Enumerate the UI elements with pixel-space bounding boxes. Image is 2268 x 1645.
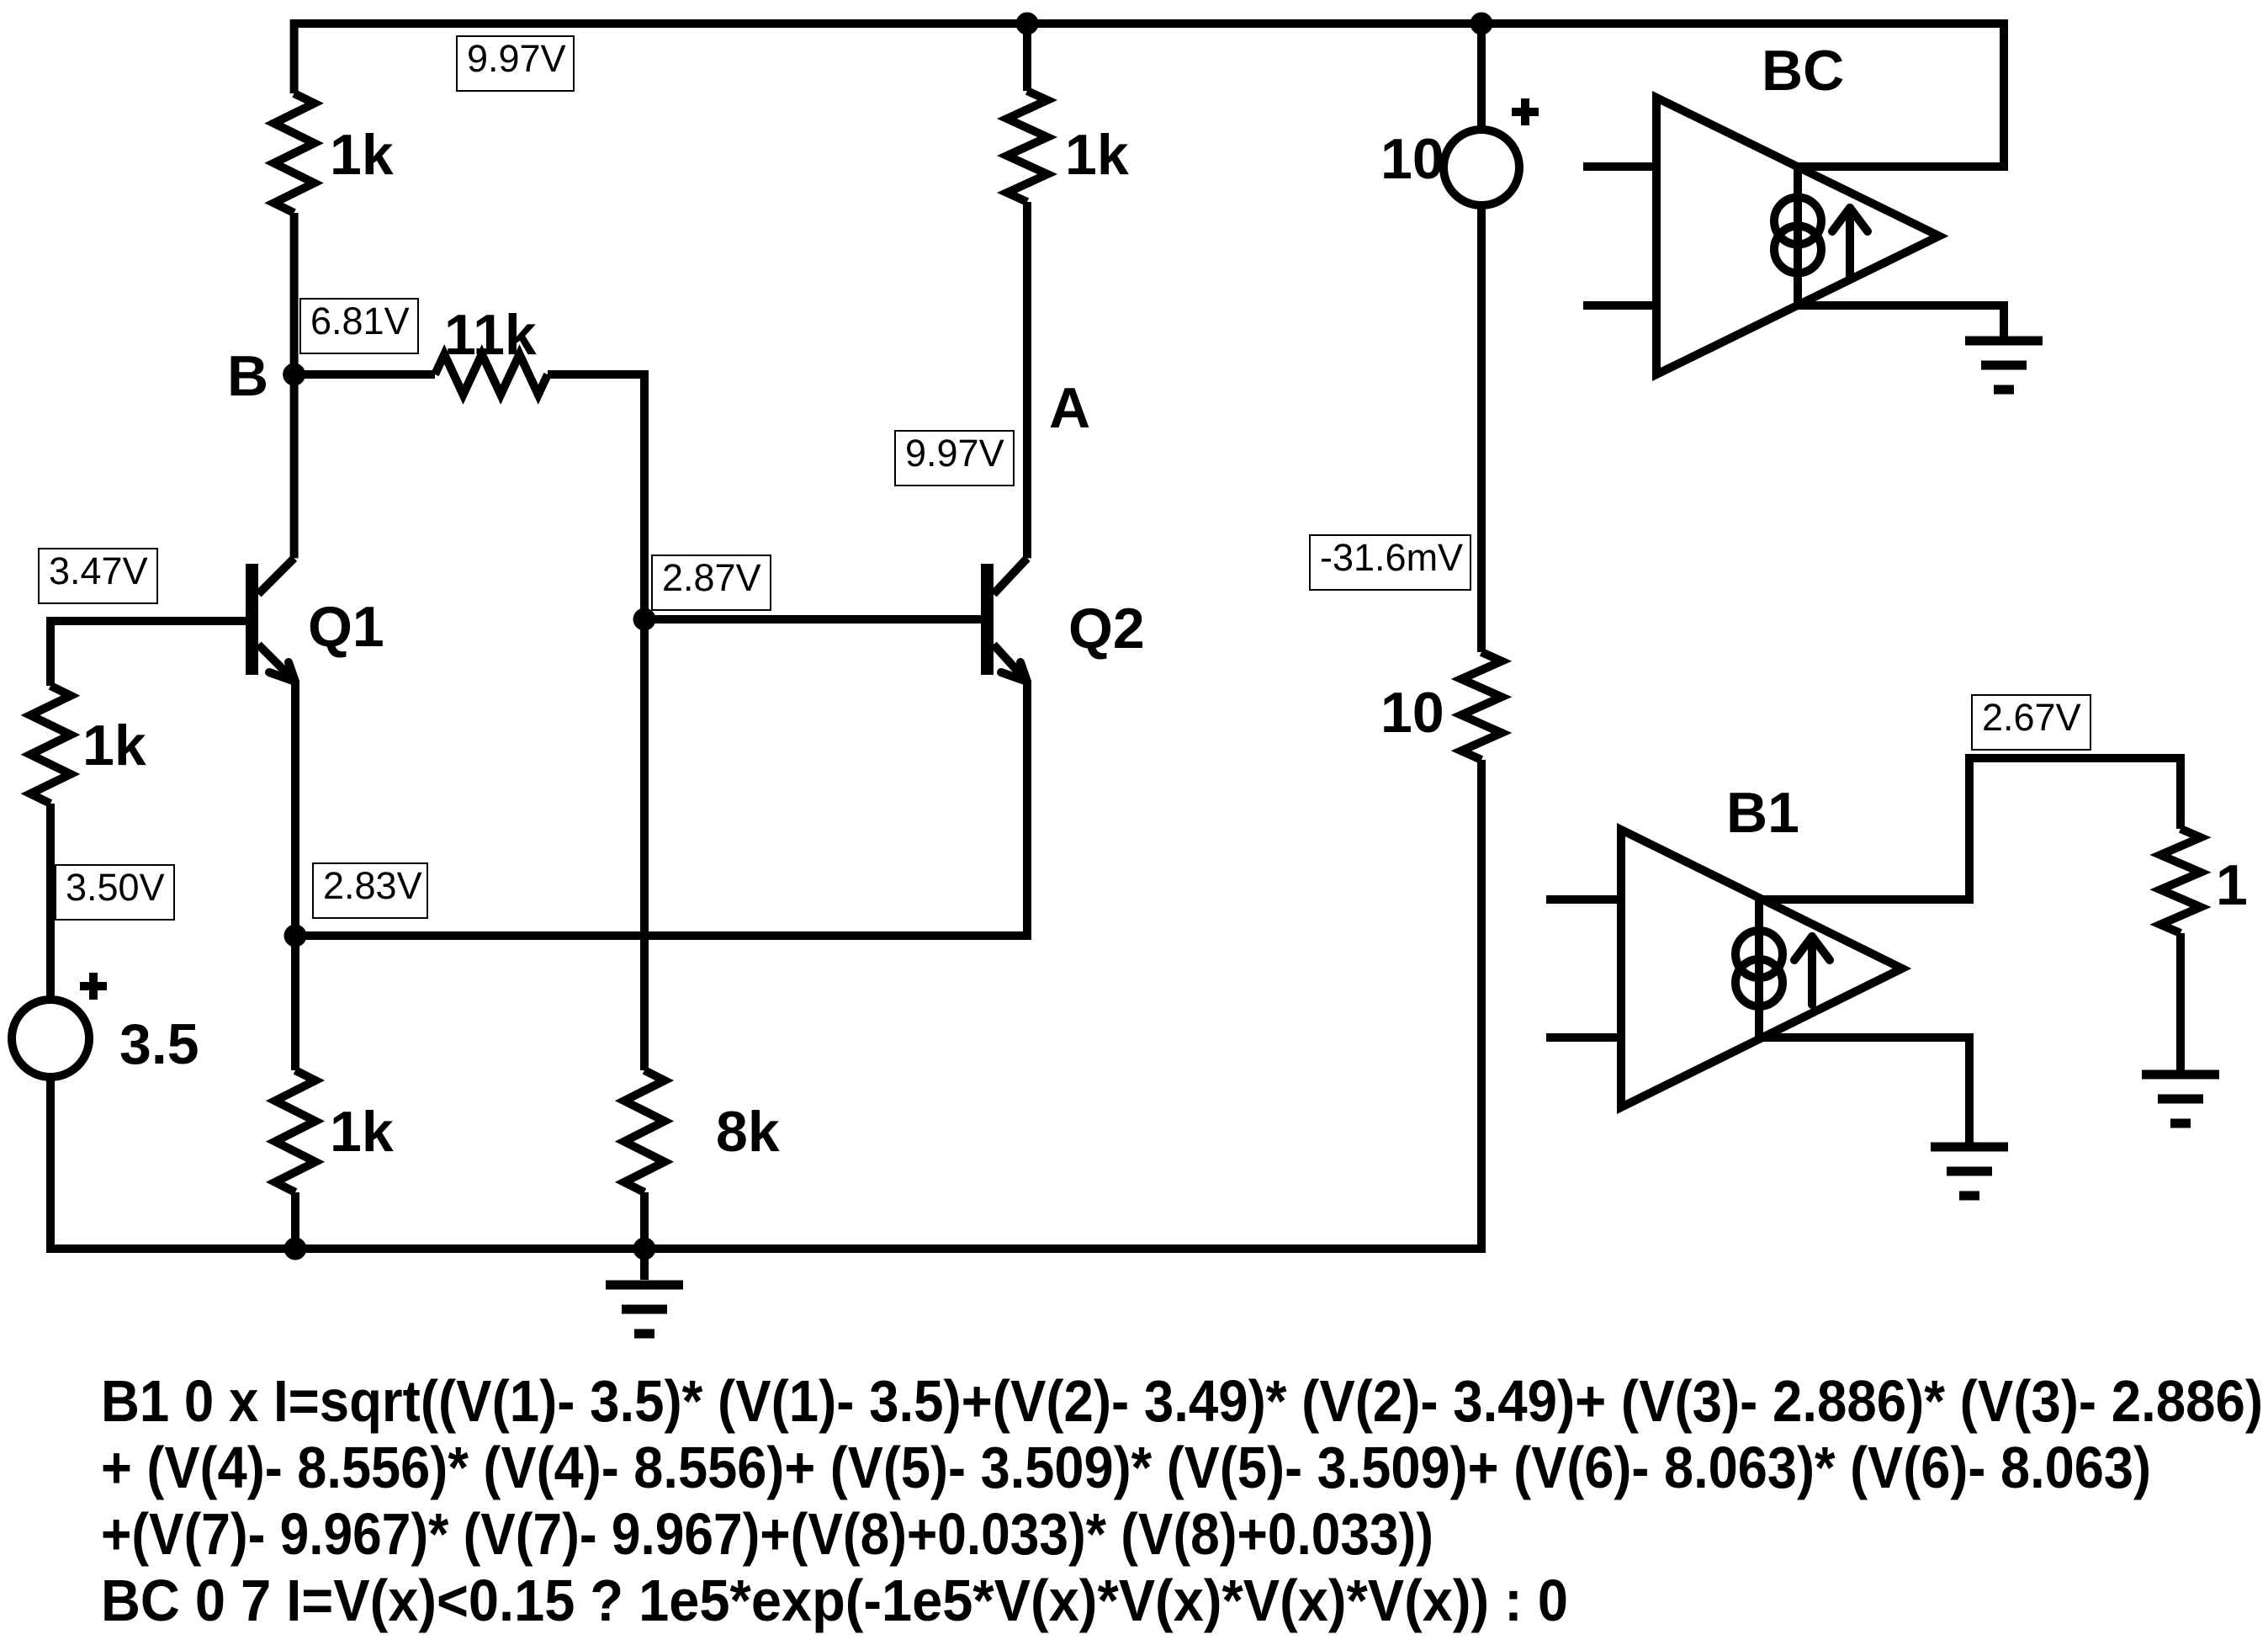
resistor R4 1k (Q1 emitter) (275, 1070, 315, 1192)
svg-text:BC 0 7 I=V(x)<0.15 ? 1e5*exp(-: BC 0 7 I=V(x)<0.15 ? 1e5*exp(-1e5*V(x)*V… (101, 1568, 1568, 1633)
resistor R7 10 (1461, 652, 1502, 760)
behavioral source BC body (1656, 98, 1939, 374)
node Q2 base junction dot (633, 608, 656, 631)
wire top supply rail (294, 19, 2004, 28)
svg-text:11k: 11k (444, 303, 537, 367)
svg-text:9.97V: 9.97V (467, 37, 566, 80)
junction dot top middle (1016, 13, 1039, 35)
wire bottom ground rail (50, 1244, 1481, 1253)
voltage label box 6.81V at node B (300, 299, 418, 353)
wire Q2 base (644, 615, 981, 624)
wire top rail to V2 (1477, 24, 1486, 130)
wire V2 to R7 (1477, 205, 1486, 652)
wire R8 to ground (2176, 933, 2185, 1070)
svg-text:B1 0 x I=sqrt((V(1)- 3.5)* (V(: B1 0 x I=sqrt((V(1)- 3.5)* (V(1)- 3.5)+(… (101, 1368, 2263, 1434)
voltage label box 3.47V (39, 549, 157, 603)
svg-text:1k: 1k (82, 714, 146, 777)
resistor R6 1k (Q2 collector load) (1007, 91, 1047, 202)
svg-text:Q1: Q1 (308, 595, 384, 659)
svg-text:6.81V: 6.81V (310, 300, 410, 342)
voltage source V2 10V (1444, 130, 1519, 205)
resistor R8 1 (B1 load) (2160, 829, 2201, 933)
svg-text:2.83V: 2.83V (323, 864, 422, 907)
wire R5 to ground rail (640, 1192, 649, 1249)
wire base corner (46, 617, 55, 621)
wire Q1 base (50, 617, 246, 625)
junction dot top right (1470, 13, 1493, 35)
svg-text:+(V(7)- 9.967)* (V(7)- 9.967)+: +(V(7)- 9.967)* (V(7)- 9.967)+(V(8)+0.03… (101, 1501, 1433, 1567)
BC current arrow (1832, 208, 1868, 276)
wire R1 to node B (290, 213, 299, 374)
svg-text:3.50V: 3.50V (66, 866, 165, 909)
svg-text:1k: 1k (330, 1100, 394, 1164)
voltage label box 2.83V (313, 863, 427, 918)
B1 input stub upper (1546, 895, 1621, 904)
svg-text:9.97V: 9.97V (905, 432, 1004, 475)
svg-text:+ (V(4)- 8.556)* (V(4)- 8.556): + (V(4)- 8.556)* (V(4)- 8.556)+ (V(5)- 3… (101, 1435, 2151, 1500)
plus sign of V2 (1512, 98, 1539, 125)
wire R4 to ground rail (291, 1192, 299, 1249)
node B junction dot (283, 363, 305, 386)
B1 current arrow (1794, 937, 1830, 1005)
svg-text:1: 1 (2216, 853, 2248, 917)
svg-text:2.67V: 2.67V (1982, 696, 2081, 739)
voltage label box 2.67V (1972, 695, 2090, 750)
wire B1 return to ground (1759, 1037, 1969, 1143)
B1 input stub lower (1546, 1033, 1621, 1042)
transistor Q1 (npn) (246, 558, 295, 682)
wire V1 to ground rail (46, 1077, 55, 1253)
BC current source circles (1774, 198, 1821, 273)
voltage label box 9.97V top (457, 36, 574, 91)
svg-text:B: B (227, 344, 268, 408)
ground symbol at BC (1965, 337, 2043, 346)
wire node B down to Q1 collector (290, 374, 299, 558)
wire base branch down to R3 (46, 621, 55, 686)
svg-text:1k: 1k (330, 123, 394, 187)
svg-text:1k: 1k (1065, 123, 1129, 187)
node emitter junction dot (284, 925, 307, 947)
wire R7 to ground rail (1477, 760, 1486, 1253)
junction dot bottom middle (633, 1238, 656, 1260)
BC input stub lower (1583, 301, 1656, 310)
wire R6 to top rail (1023, 24, 1031, 91)
resistor R5 8k (624, 1070, 665, 1192)
wire BC output to top rail (1798, 19, 2004, 167)
svg-text:3.47V: 3.47V (49, 549, 148, 592)
wire Q1 emitter down (291, 682, 299, 1070)
ground symbol at B1 (1931, 1143, 2008, 1152)
voltage label box 2.87V (652, 555, 771, 610)
svg-text:3.5: 3.5 (119, 1012, 199, 1076)
ground symbol (main) (606, 1249, 683, 1334)
voltage source V1 3.5V (12, 1000, 89, 1077)
svg-text:8k: 8k (716, 1100, 780, 1164)
svg-text:BC: BC (1762, 39, 1844, 103)
voltage label box 9.97V at node A (895, 431, 1014, 486)
svg-text:10: 10 (1380, 127, 1444, 191)
svg-text:B1: B1 (1726, 781, 1799, 845)
resistor R2 11k (435, 354, 548, 395)
svg-text:A: A (1049, 376, 1090, 440)
wire R3 to source V1 (46, 804, 55, 1000)
svg-text:Q2: Q2 (1068, 597, 1145, 661)
plus sign of V1 (80, 973, 107, 1000)
junction dot bottom left (284, 1238, 307, 1260)
BC input stub upper (1583, 162, 1656, 171)
transistor Q2 (npn) (981, 558, 1027, 682)
wire B1 output to R8 (1759, 758, 2181, 899)
wire emitter bus to Q2 (295, 682, 1027, 936)
svg-text:10: 10 (1380, 681, 1444, 745)
svg-text:-31.6mV: -31.6mV (1320, 536, 1463, 579)
wire node B to R2 (294, 370, 435, 379)
wire BC return to ground (1798, 305, 2004, 337)
B1 current source circles (1735, 931, 1783, 1006)
ground symbol at R8 (2142, 1070, 2219, 1080)
wire top-left drop to R1 (290, 19, 299, 93)
behavioral source B1 body (1621, 830, 1902, 1107)
resistor R3 1k (base feed) (30, 686, 71, 804)
voltage label box -31.6mV (1310, 535, 1470, 590)
voltage label box 3.50V (56, 865, 174, 920)
resistor R1 1k (Q1 collector load) (274, 93, 315, 213)
wire R2 to middle column (548, 374, 644, 1070)
wire Q2 collector up (1023, 202, 1031, 558)
svg-text:2.87V: 2.87V (662, 556, 761, 599)
